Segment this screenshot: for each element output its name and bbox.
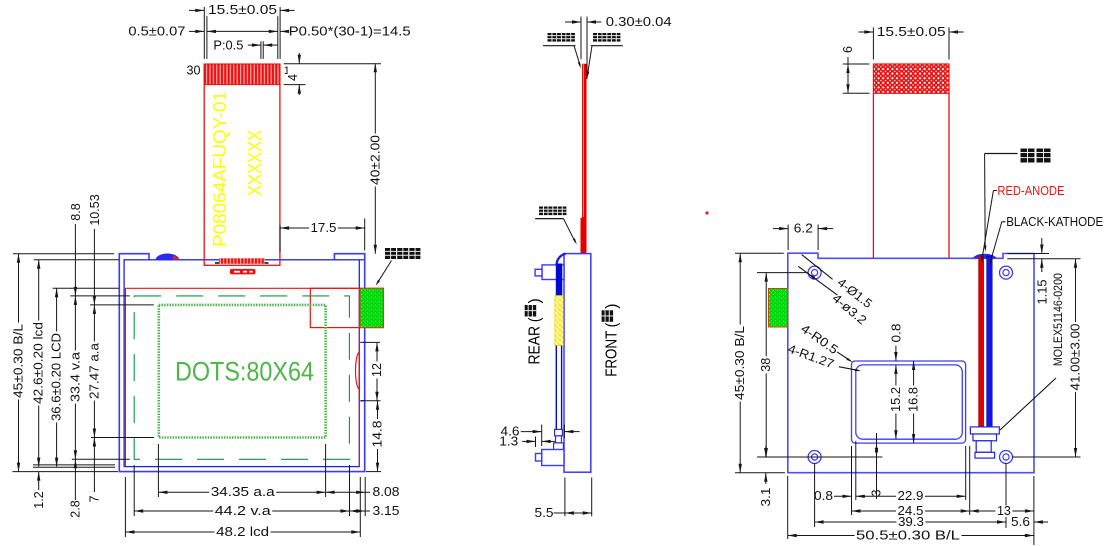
rear cable left edge (872, 93, 874, 258)
svg-text:P08064AFUQY-01: P08064AFUQY-01 (209, 91, 230, 247)
dim 45±0.30 B/L rear (733, 253, 785, 472)
label 保护带 (protective tape) (539, 207, 548, 216)
gold finger hatched block (204, 64, 280, 85)
stray red dot (705, 211, 708, 214)
dim 36.6±0.20 LCD vertical (50, 288, 64, 466)
black cathode wire (987, 256, 993, 427)
LCD glass outline (124, 260, 359, 467)
svg-text:10.53: 10.53 (88, 194, 102, 225)
svg-text:3: 3 (870, 489, 884, 496)
dim 5.5 (body thickness) (535, 478, 592, 521)
svg-text:45±0.30 B/L: 45±0.30 B/L (733, 326, 747, 400)
label REAR (rear CJK) (525, 298, 544, 364)
svg-text:7: 7 (88, 495, 102, 502)
svg-text:3.1: 3.1 (759, 487, 773, 506)
bottom pin connector side (555, 429, 563, 436)
svg-text:P:0.5: P:0.5 (213, 38, 243, 52)
screw hole 4 (1000, 451, 1013, 464)
svg-text:30: 30 (187, 64, 201, 78)
flex cable outline (204, 64, 280, 265)
svg-text:1.15: 1.15 (1035, 279, 1049, 304)
label 补强板 (stiffener) (548, 33, 557, 42)
dim 12 right side (361, 342, 384, 400)
svg-text:6.2: 6.2 (794, 221, 813, 235)
dim 14.8 right side (366, 401, 385, 472)
flex cable side (red) (581, 64, 587, 254)
dim 0.8 cutout offset (890, 323, 904, 361)
dim 38 (757, 273, 882, 457)
svg-text:22.9: 22.9 (898, 489, 924, 503)
leader black cathode (990, 222, 1006, 265)
label FRONT (front CJK) (602, 304, 621, 377)
svg-text:50.5±0.30 B/L: 50.5±0.30 B/L (856, 528, 960, 542)
dim 27.47 a.a vertical (87, 305, 101, 438)
cutout outer rounded rect (852, 361, 966, 443)
svg-text:BLACK-KATHODE: BLACK-KATHODE (1006, 215, 1103, 229)
red tab outline (310, 288, 383, 327)
svg-text:0.5±0.07: 0.5±0.07 (128, 24, 185, 38)
dim 2.8 (69, 459, 83, 517)
svg-text:0.8: 0.8 (814, 489, 833, 503)
leader lines for stiffener and gold finger (543, 46, 623, 78)
red anode wire (979, 256, 984, 434)
leader to green sticker (376, 261, 392, 286)
leader molex (1000, 378, 1056, 430)
bezel outline with mounting ears (119, 254, 364, 472)
dim 0.30±0.04 (cable thickness) (565, 15, 672, 79)
svg-text:34.35 a.a: 34.35 a.a (211, 485, 275, 499)
top tab nub (535, 269, 542, 276)
svg-text:12: 12 (370, 363, 384, 377)
svg-text:36.6±0.20 LCD: 36.6±0.20 LCD (50, 333, 64, 421)
svg-text:): ) (527, 298, 544, 303)
svg-text:6: 6 (841, 46, 855, 53)
svg-text:17.5: 17.5 (311, 221, 337, 235)
screw hole 1 (808, 266, 821, 279)
molex connector (970, 427, 999, 458)
screw hole 2 (1000, 266, 1013, 279)
dim 44.2 v.a and 3.15 (134, 504, 399, 518)
label 点胶 (glue dispensing) (1021, 149, 1035, 163)
svg-text:XXXXXX: XXXXXX (244, 130, 265, 196)
dim 1.2 (32, 472, 46, 509)
extension lines left side (12, 254, 154, 472)
dim 3 (cutout to hole line) (870, 433, 884, 499)
ear inner edge segment (359, 259, 364, 261)
dim 15.5±0.05 (flex width) (189, 3, 295, 59)
svg-text:1.3: 1.3 (499, 434, 518, 448)
svg-text:40±2.00: 40±2.00 (368, 135, 382, 185)
label 金手指 (gold finger) (593, 33, 602, 42)
dim 3.1 (759, 446, 773, 507)
dim 6.2 (773, 221, 833, 250)
svg-text:42.6±0.20 lcd: 42.6±0.20 lcd (32, 322, 46, 404)
flex bottom connector comb (219, 258, 265, 264)
rear view (733, 25, 1103, 545)
right rung top (359, 341, 364, 343)
dim 0.5±0.07 and P0.50*(30-1)=14.5 (128, 24, 410, 38)
svg-text:P0.50*(30-1)=14.5: P0.50*(30-1)=14.5 (289, 24, 411, 38)
svg-text:33.4 v.a: 33.4 v.a (68, 352, 82, 402)
dim 16.8 (907, 361, 921, 443)
dim 34.35 a.a and 8.08 (158, 485, 399, 499)
dim 33.4 v.a vertical (68, 296, 82, 459)
svg-text:15.2: 15.2 (889, 387, 903, 412)
glue dome (973, 254, 997, 259)
svg-text:RED-ANODE: RED-ANODE (997, 184, 1064, 198)
screw hole 3 (808, 451, 821, 464)
svg-text:39.3: 39.3 (898, 515, 924, 529)
svg-text:44.2 v.a: 44.2 v.a (215, 504, 271, 518)
red edge segment (358, 342, 360, 400)
label 4-ø3.2 with leader (798, 266, 869, 327)
svg-text:0.30±0.04: 0.30±0.04 (606, 15, 672, 29)
extension lines bottom (125, 444, 365, 537)
right rung bottom (359, 400, 364, 402)
bent FPC arc (557, 254, 566, 265)
svg-text:8.08: 8.08 (373, 485, 400, 499)
rear module outline with ears (788, 253, 1034, 473)
rear cable right edge (948, 93, 950, 258)
label 4-ø1.5 with leader (802, 255, 875, 311)
svg-text:27.47 a.a: 27.47 a.a (87, 343, 101, 399)
dim 42.6±0.20 lcd vertical (32, 260, 46, 467)
dim 4.6 (tab width) (501, 425, 580, 447)
svg-text:41.00±3.00: 41.00±3.00 (1069, 323, 1083, 390)
leader glue dispensing (984, 154, 1018, 253)
middle view: side profile (499, 15, 708, 520)
cutout inner rounded rect (856, 365, 963, 439)
label 4-R1.27 with leader (786, 342, 861, 372)
dim 50.5±0.30 B/L (788, 528, 1034, 542)
dim 15.2 (889, 365, 903, 439)
backlight LED blob (156, 254, 180, 260)
dim 6 (hatch height) (841, 45, 869, 94)
leader red anode (981, 191, 997, 264)
rear green sticker (769, 289, 788, 328)
svg-text:FRONT (: FRONT ( (604, 322, 621, 377)
dim 45±0.30 B/L vertical (12, 254, 26, 472)
dim 7 (88, 438, 102, 503)
svg-text:0.8: 0.8 (890, 323, 904, 342)
dim 41.00±3.00 (1012, 259, 1083, 457)
red arc cutout (356, 352, 360, 389)
svg-text:1.2: 1.2 (32, 491, 46, 508)
svg-text:48.2 lcd: 48.2 lcd (216, 525, 269, 539)
svg-text:16.8: 16.8 (907, 387, 921, 412)
dim 15.5±0.05 rear cable (858, 25, 963, 60)
viewing area dashed rect (134, 296, 349, 459)
green tear-off sticker (360, 288, 383, 327)
dim 17.5 (flex to edge) (280, 219, 365, 253)
module body side (564, 254, 591, 473)
svg-text:2.8: 2.8 (69, 500, 83, 517)
svg-text:15.5±0.05: 15.5±0.05 (208, 3, 277, 17)
rear bottom extension lines (788, 441, 1034, 545)
dim 0.8 and 22.9 (814, 489, 966, 503)
dim 1.15 (1007, 238, 1080, 305)
dim P:0.5 (finger pitch) (213, 38, 278, 59)
svg-text:13: 13 (997, 504, 1011, 518)
svg-text:8.8: 8.8 (69, 203, 83, 220)
dim 40±2.00 (flex length) (368, 63, 382, 253)
svg-text:): ) (604, 304, 621, 309)
svg-text:MOLEX51146-0200: MOLEX51146-0200 (1053, 273, 1065, 366)
panel lines lower (555, 346, 557, 430)
svg-text:45±0.30 B/L: 45±0.30 B/L (12, 324, 26, 398)
svg-text:5.6: 5.6 (1011, 515, 1030, 529)
label 4-R0.5 with leader (798, 321, 852, 362)
top mounting tab (542, 265, 564, 280)
svg-text:5.5: 5.5 (535, 506, 554, 520)
label 易撕贴 (tear-off sticker) (385, 248, 396, 259)
polarizer red outline (125, 288, 359, 466)
svg-text:REAR (: REAR ( (527, 317, 544, 365)
dim 48.2 lcd (125, 525, 360, 539)
svg-text:4: 4 (286, 74, 300, 81)
dim 8.8 (top to v.a) (69, 203, 83, 296)
dim 10.53 (top to a.a) (88, 194, 102, 305)
svg-text:38: 38 (759, 358, 773, 372)
dim 39.3 and 5.6 (815, 515, 1048, 529)
svg-text:DOTS:80X64: DOTS:80X64 (175, 356, 314, 386)
svg-text:14.8: 14.8 (371, 420, 385, 447)
rear cable hatched end (873, 64, 949, 93)
leader protective tape (535, 219, 577, 245)
yellow tape block (555, 296, 563, 346)
small red connector (230, 269, 256, 275)
bottom mounting tab (542, 450, 564, 466)
bottom tab nub (536, 454, 542, 462)
dim 1.3 (nub width) (499, 434, 555, 448)
active area dotted rect (159, 305, 326, 438)
dim 4 (finger block height) (284, 53, 381, 95)
svg-text:3.15: 3.15 (373, 504, 400, 518)
svg-text:15.5±0.05: 15.5±0.05 (877, 25, 946, 39)
dim 24.5 and 13 (852, 504, 1034, 518)
left view: LCD module front (12, 3, 421, 539)
panel edge bar (blue) (556, 264, 563, 296)
